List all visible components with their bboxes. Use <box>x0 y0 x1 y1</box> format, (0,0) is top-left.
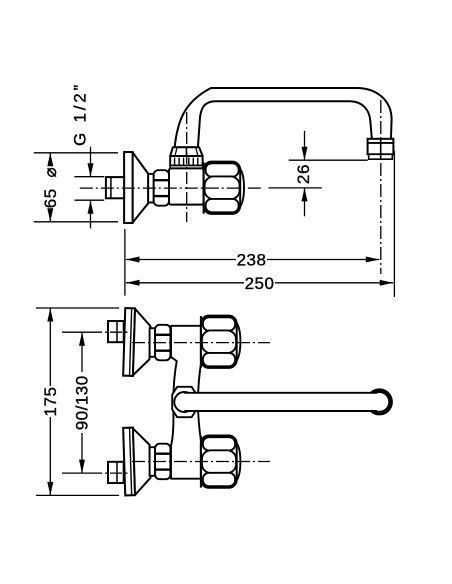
svg-text:90/130: 90/130 <box>73 375 92 430</box>
thread lines G1/2 <box>74 177 104 201</box>
svg-text:250: 250 <box>245 274 275 293</box>
dimension 90/130 <box>73 332 92 473</box>
svg-text:238: 238 <box>237 251 267 270</box>
lower valve: flange plate <box>123 428 135 496</box>
lower valve: flange cone <box>133 428 151 495</box>
dimension G 1/2" <box>71 82 94 228</box>
extension line centerline (26) <box>268 187 321 189</box>
upper valve: flange cone <box>133 309 151 376</box>
aerator (spout outlet) <box>368 139 394 159</box>
extension line 65-top <box>34 152 118 154</box>
wall connection stub G1/2 <box>106 177 124 198</box>
hex cap (top view) <box>204 162 244 214</box>
upper valve: union nut <box>155 325 170 361</box>
upper valve: wall stub <box>108 321 124 342</box>
lower valve: hex cap <box>201 436 241 488</box>
upper valve: hex cap <box>201 316 241 368</box>
spout tube (plan) <box>184 393 377 411</box>
spout tube rolled tip <box>368 391 390 413</box>
union nut ring <box>148 174 154 203</box>
lower stub centerline <box>62 472 128 474</box>
centerline spout axis (vertical, right) <box>380 100 382 274</box>
center body column with bridge <box>171 326 202 479</box>
extension line aerator outlet (26) <box>289 159 368 161</box>
spout tube U-bend <box>175 88 392 147</box>
extension line spout outer edge (250) <box>393 151 395 297</box>
swivel boss circle <box>174 392 194 412</box>
extension line wall face (238/250) <box>124 229 126 296</box>
wall flange plate <box>124 152 133 223</box>
upper stub centerline <box>62 331 128 333</box>
union nut (hex, side view) <box>154 170 169 206</box>
lower valve: wall stub <box>108 462 124 483</box>
valve body (side view) <box>169 168 204 204</box>
svg-text:65 ⌀: 65 ⌀ <box>41 167 60 209</box>
svg-text:175: 175 <box>41 386 60 416</box>
swivel nut knurled crown <box>170 156 202 168</box>
lower valve axis centerline <box>132 461 270 463</box>
upper valve: union nut ring <box>150 328 156 357</box>
centerline vertical (valve axis, top view) <box>186 112 188 222</box>
dimension 26 <box>294 131 313 216</box>
dimension 250 <box>126 274 393 293</box>
dimension 238 <box>126 251 379 270</box>
upper valve: flange plate <box>123 308 135 376</box>
upper valve axis centerline <box>132 342 270 344</box>
wall flange cone <box>133 152 149 222</box>
lower valve: union nut <box>155 444 170 480</box>
lower valve: union nut ring <box>150 447 156 476</box>
dimension 175 <box>41 308 60 495</box>
swivel boss octagon <box>172 387 196 417</box>
centerline horizontal (valve axis, top view) <box>80 187 262 189</box>
svg-text:26: 26 <box>294 164 313 184</box>
dimension 65 diameter <box>41 153 60 222</box>
extension line 175-bottom <box>36 494 119 496</box>
extension line 175-top <box>36 307 119 309</box>
svg-text:G 1/2”: G 1/2” <box>71 82 90 146</box>
swivel nut chamfer <box>170 147 202 156</box>
extension line 65-bottom <box>34 221 118 223</box>
